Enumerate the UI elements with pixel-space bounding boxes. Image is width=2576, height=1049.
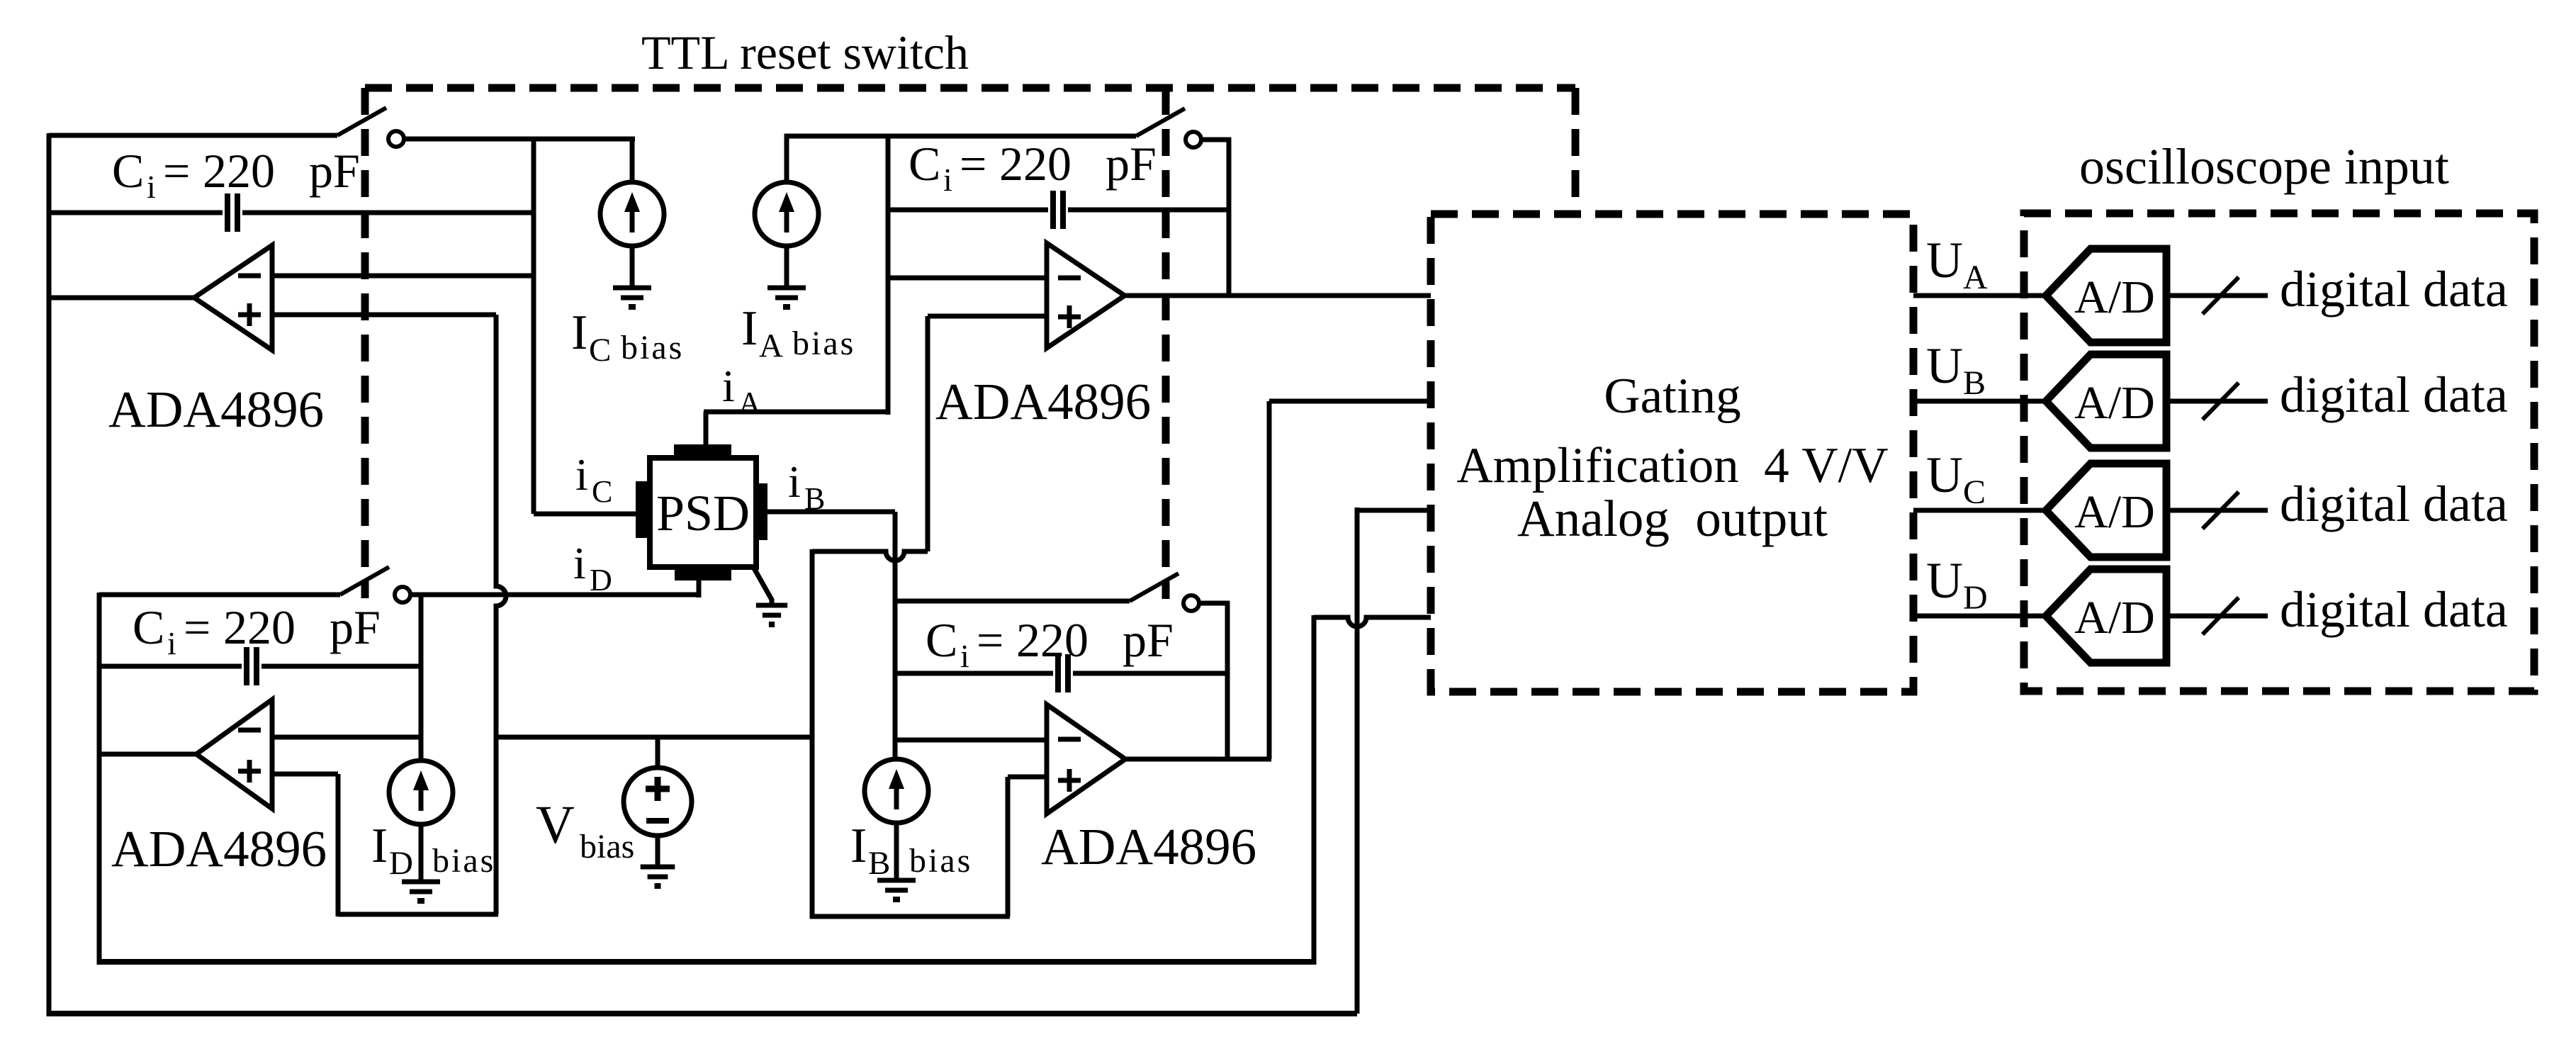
- capacitor C_i (op-amp B) right wire: [1073, 671, 1227, 676]
- svg-text:D: D: [590, 563, 612, 598]
- bus slash (B channel): [2203, 383, 2239, 420]
- svg-text:C: C: [589, 332, 611, 369]
- label ADA4896 (op-amp D): [111, 820, 327, 877]
- capacitor C_i (op-amp B): [1058, 654, 1068, 692]
- svg-text:bias: bias: [580, 828, 634, 865]
- label I_B bias: [850, 819, 972, 882]
- node i_A riser x=1253: [886, 134, 891, 415]
- wire top-left feedback: [49, 133, 337, 138]
- wire A/D D digital output: [2166, 614, 2268, 619]
- wire bias node horizontal y=1040: [496, 735, 812, 740]
- wire node B column x=1263: [893, 512, 898, 761]
- svg-text:A/D: A/D: [2074, 486, 2155, 538]
- current source I_A bias: [755, 182, 819, 246]
- label digital data (A channel): [2280, 261, 2508, 318]
- wire bias hop horizontal y=778 (crosses i_B): [812, 551, 928, 561]
- wire op-amp B non-inverting input: [1008, 775, 1047, 780]
- svg-text:C: C: [909, 137, 940, 191]
- capacitor C_i (op-amp B) left wire: [895, 671, 1053, 676]
- ground I_B bias: [877, 880, 916, 899]
- op-amp U4 ADA4896 (B channel): [1047, 705, 1125, 814]
- svg-text:A/D: A/D: [2074, 377, 2155, 429]
- wire bias horizontal y=1293 (to op-amp B plus): [810, 914, 1010, 919]
- label C_i = 220 pF (op-amp D): [133, 600, 381, 661]
- TTL reset switch dashed box left edge: [361, 88, 369, 598]
- svg-text:U: U: [1926, 552, 1963, 609]
- ground V_bias: [641, 867, 675, 886]
- svg-text:U: U: [1926, 337, 1963, 394]
- PSD left pad (anode C): [636, 481, 650, 538]
- svg-text:bias: bias: [909, 842, 972, 880]
- label U_D: [1926, 552, 1988, 617]
- wire switch column x=1734 (op-amp A): [1227, 138, 1232, 296]
- wire I_A bias to ground: [784, 245, 789, 288]
- wire I_A bias riser: [784, 134, 888, 183]
- capacitor C_i (op-amp A) right wire: [1068, 208, 1229, 213]
- label C_i = 220 pF (op-amp A): [909, 137, 1157, 198]
- svg-text:Gating: Gating: [1604, 369, 1740, 424]
- label I_D bias: [371, 819, 495, 882]
- svg-text:Analog output: Analog output: [1517, 490, 1828, 547]
- svg-text:220: 220: [1016, 613, 1089, 667]
- svg-text:TTL reset switch: TTL reset switch: [641, 26, 969, 79]
- wire i_A horizontal: [704, 410, 888, 415]
- svg-text:PSD: PSD: [656, 485, 750, 542]
- svg-text:I: I: [371, 819, 388, 873]
- wire U_C into Gating box: [1357, 508, 1431, 513]
- wire op-amp A non-inverting input: [928, 314, 1047, 319]
- wire op-amp B output into Gating box: [1269, 399, 1431, 404]
- wire i_D drop from PSD bottom pad: [697, 578, 702, 598]
- PSD bottom pad (anode D): [675, 567, 731, 580]
- A/D converter (C channel): [2046, 464, 2166, 557]
- label Analog output: [1517, 490, 1828, 547]
- svg-text:C: C: [1963, 473, 1986, 511]
- wire op-amp A plus riser x=1309: [926, 316, 930, 551]
- svg-text:I: I: [741, 301, 758, 356]
- wire U_D riser x=1854: [1312, 615, 1317, 965]
- label i_C: [575, 449, 612, 509]
- label U_B: [1926, 337, 1986, 402]
- wire op-amp B plus riser x=1422: [1006, 777, 1011, 916]
- oscilloscope input dashed box: [2024, 213, 2534, 691]
- svg-text:V: V: [536, 795, 575, 855]
- svg-text:U: U: [1926, 447, 1963, 503]
- wire top feedback (op-amp A): [888, 134, 1136, 139]
- bus slash (A channel): [2203, 277, 2239, 314]
- label ADA4896 (op-amp A): [935, 373, 1151, 430]
- TTL reset switch dashed box right edge: [1572, 88, 1580, 214]
- svg-text:220: 220: [203, 144, 275, 198]
- svg-text:digital data: digital data: [2280, 366, 2508, 423]
- wire V_bias to ground: [656, 836, 660, 867]
- wire U_A from Gating box: [1913, 293, 2049, 298]
- svg-text:=: =: [977, 613, 1003, 667]
- wire op-amp A output to Gating: [1125, 293, 1431, 298]
- capacitor C_i (op-amp C) right wire: [242, 211, 534, 215]
- wire op-amp C output: [49, 296, 194, 301]
- bus slash (D channel): [2203, 598, 2239, 634]
- svg-text:digital data: digital data: [2280, 476, 2508, 532]
- label i_B: [788, 456, 825, 516]
- svg-text:A: A: [738, 386, 761, 420]
- svg-text:i: i: [943, 162, 952, 198]
- capacitor C_i (op-amp C): [227, 193, 237, 232]
- svg-text:A/D: A/D: [2074, 592, 2155, 644]
- svg-text:ADA4896: ADA4896: [935, 373, 1151, 430]
- svg-text:220: 220: [223, 600, 296, 654]
- label ADA4896 (op-amp C): [108, 381, 324, 438]
- svg-text:bias: bias: [621, 329, 684, 366]
- svg-text:220: 220: [999, 137, 1072, 191]
- wire op-amp B output riser x=1791: [1267, 401, 1272, 759]
- wire U_B from Gating box: [1913, 399, 2049, 404]
- wire node C vertical x=753: [531, 137, 536, 514]
- wire i_D horizontal: [411, 593, 701, 598]
- A/D converter (A channel): [2046, 249, 2166, 342]
- svg-text:I: I: [850, 819, 867, 873]
- ground PSD common: [756, 605, 787, 624]
- label i_D: [573, 538, 612, 598]
- PSD top pad (anode A): [674, 444, 731, 458]
- wire I_C bias drop: [630, 137, 635, 183]
- svg-text:i: i: [788, 456, 801, 507]
- svg-text:i: i: [167, 625, 176, 661]
- wire S4 to output column: [1199, 601, 1230, 606]
- wire U_D from Gating box: [1913, 614, 2049, 619]
- svg-text:A: A: [759, 327, 783, 364]
- label I_C bias: [571, 305, 684, 369]
- svg-text:ADA4896: ADA4896: [1041, 818, 1256, 875]
- capacitor C_i (op-amp C) left wire: [49, 211, 223, 215]
- A/D converter (D channel): [2046, 569, 2166, 663]
- PSD right pad (anode B): [753, 483, 767, 540]
- wire U_C from Gating box: [1913, 508, 2049, 513]
- ground I_A bias: [767, 288, 806, 307]
- TTL reset switch dashed box top edge: [365, 84, 1575, 92]
- wire node D column x=594: [419, 593, 424, 761]
- wire i_B from PSD right pad: [767, 510, 895, 515]
- svg-text:B: B: [868, 845, 890, 882]
- svg-text:bias: bias: [792, 325, 855, 362]
- wire op-amp D inverting input: [272, 735, 421, 740]
- current source I_D bias: [389, 761, 453, 824]
- switch S3 (TTL reset, op-amp D): [340, 567, 410, 602]
- wire I_C bias to ground: [630, 245, 635, 288]
- label ADA4896 (op-amp B): [1041, 818, 1256, 875]
- wire switch column x=1732 (op-amp B): [1225, 601, 1230, 759]
- svg-text:=: =: [960, 137, 986, 191]
- wire bias horizontal y=1290 (to op-amp D plus): [338, 912, 498, 917]
- svg-text:i: i: [960, 638, 969, 674]
- svg-text:pF: pF: [1106, 137, 1157, 191]
- wire op-amp A inverting input: [888, 276, 1047, 281]
- ground I_D bias: [402, 882, 440, 901]
- svg-text:C: C: [926, 613, 957, 667]
- svg-text:C: C: [592, 474, 612, 509]
- label TTL reset switch: [641, 26, 969, 79]
- capacitor C_i (op-amp A) left wire: [888, 208, 1048, 213]
- svg-text:D: D: [1963, 579, 1988, 617]
- svg-text:C: C: [112, 144, 144, 198]
- label Amplification 4 V/V: [1456, 438, 1888, 493]
- wire A/D C digital output: [2166, 508, 2268, 513]
- wire bias riser x=1146: [810, 549, 815, 919]
- svg-text:pF: pF: [330, 600, 381, 654]
- wire bias riser x=700 with hop over i_D: [496, 315, 506, 914]
- svg-text:I: I: [571, 305, 587, 360]
- svg-text:A/D: A/D: [2074, 271, 2155, 323]
- wire op-amp D plus riser x=477: [336, 774, 341, 916]
- svg-text:i: i: [573, 538, 586, 588]
- wire I_D bias to ground: [419, 823, 424, 882]
- switch S4 (TTL reset, op-amp B): [1130, 573, 1199, 611]
- svg-text:C: C: [133, 600, 164, 654]
- svg-text:digital data: digital data: [2280, 581, 2508, 638]
- label digital data (D channel): [2280, 581, 2508, 638]
- switch S2 (TTL reset, op-amp A): [1136, 108, 1201, 147]
- label PSD: [656, 485, 750, 542]
- svg-text:i: i: [575, 449, 588, 500]
- label Gating: [1604, 369, 1740, 424]
- svg-text:B: B: [1963, 364, 1986, 402]
- wire lower-left block vertical x=140: [97, 593, 102, 965]
- current source I_B bias: [865, 759, 928, 823]
- label i_A: [722, 361, 761, 420]
- svg-text:ADA4896: ADA4896: [111, 820, 327, 877]
- wire op-amp C non-inverting input: [272, 313, 496, 318]
- label C_i = 220 pF (op-amp C): [112, 144, 360, 205]
- op-amp U3 ADA4896 (D channel): [196, 700, 272, 809]
- wire V_bias stub: [656, 737, 660, 769]
- wire A/D B digital output: [2166, 399, 2268, 404]
- switch S1 (TTL reset, op-amp C): [337, 108, 404, 147]
- svg-text:=: =: [184, 600, 210, 654]
- svg-text:oscilloscope input: oscilloscope input: [2079, 138, 2449, 195]
- svg-text:ADA4896: ADA4896: [108, 381, 324, 438]
- label U_C: [1926, 447, 1986, 511]
- wire lower-right top feedback: [895, 599, 1130, 604]
- wire lower-left block bottom (U_D route): [99, 959, 1314, 965]
- PSD common ground stub: [753, 567, 772, 605]
- wire bottom outer (U_C route): [47, 1011, 1357, 1016]
- label I_A bias: [741, 301, 855, 364]
- current source I_C bias: [600, 182, 664, 246]
- svg-text:B: B: [804, 481, 825, 516]
- PSD box: [650, 458, 756, 567]
- label oscilloscope input: [2079, 138, 2449, 195]
- label C_i = 220 pF (op-amp B): [926, 613, 1174, 674]
- label digital data (C channel): [2280, 476, 2508, 532]
- Gating block dashed box: [1431, 214, 1913, 692]
- ground I_C bias: [613, 288, 651, 307]
- op-amp U2 ADA4896 (A channel): [1047, 243, 1125, 348]
- label U_A: [1926, 232, 1988, 296]
- wire far-left vertical (op-amp C output bus): [47, 133, 52, 1016]
- op-amp U1 ADA4896 (C channel): [194, 245, 272, 350]
- capacitor C_i (op-amp D): [247, 647, 257, 685]
- svg-text:D: D: [389, 845, 413, 882]
- A/D converter (B channel): [2046, 354, 2166, 448]
- wire U_C riser x=1915: [1355, 507, 1360, 1014]
- capacitor C_i (op-amp D) left wire: [99, 664, 242, 669]
- TTL reset switch dashed box middle edge: [1162, 88, 1170, 599]
- wire op-amp C inverting input: [272, 274, 534, 279]
- capacitor C_i (op-amp A): [1053, 191, 1063, 229]
- svg-text:pF: pF: [1123, 613, 1174, 667]
- wire i_C from PSD left pad: [534, 512, 636, 517]
- wire U_D into Gating box (hop over U_C riser): [1314, 617, 1431, 627]
- svg-text:A: A: [1963, 259, 1988, 296]
- wire I_B bias to ground: [894, 821, 899, 880]
- svg-text:U: U: [1926, 232, 1963, 288]
- label V_bias: [536, 795, 634, 865]
- wire op-amp D non-inverting input: [272, 772, 338, 777]
- label digital data (B channel): [2280, 366, 2508, 423]
- wire op-amp D output: [99, 752, 196, 757]
- wire lower-left top feedback: [99, 593, 340, 598]
- svg-text:i: i: [147, 169, 156, 205]
- svg-text:i: i: [722, 361, 735, 411]
- svg-text:Amplification 4 V/V: Amplification 4 V/V: [1456, 438, 1888, 493]
- svg-text:pF: pF: [309, 144, 360, 198]
- wire A/D A digital output: [2166, 293, 2268, 298]
- wire i_A vertical from PSD top pad: [704, 412, 709, 447]
- wire op-amp B inverting input: [895, 738, 1047, 743]
- bus slash (C channel): [2203, 492, 2239, 529]
- wire S1 to node C column: [404, 137, 635, 142]
- svg-text:=: =: [163, 144, 190, 198]
- voltage source V_bias: [624, 768, 692, 836]
- svg-text:bias: bias: [432, 842, 495, 880]
- wire op-amp B output: [1125, 757, 1271, 762]
- wire S2 to output column: [1201, 138, 1231, 142]
- svg-text:digital data: digital data: [2280, 261, 2508, 318]
- capacitor C_i (op-amp D) right wire: [261, 664, 421, 669]
